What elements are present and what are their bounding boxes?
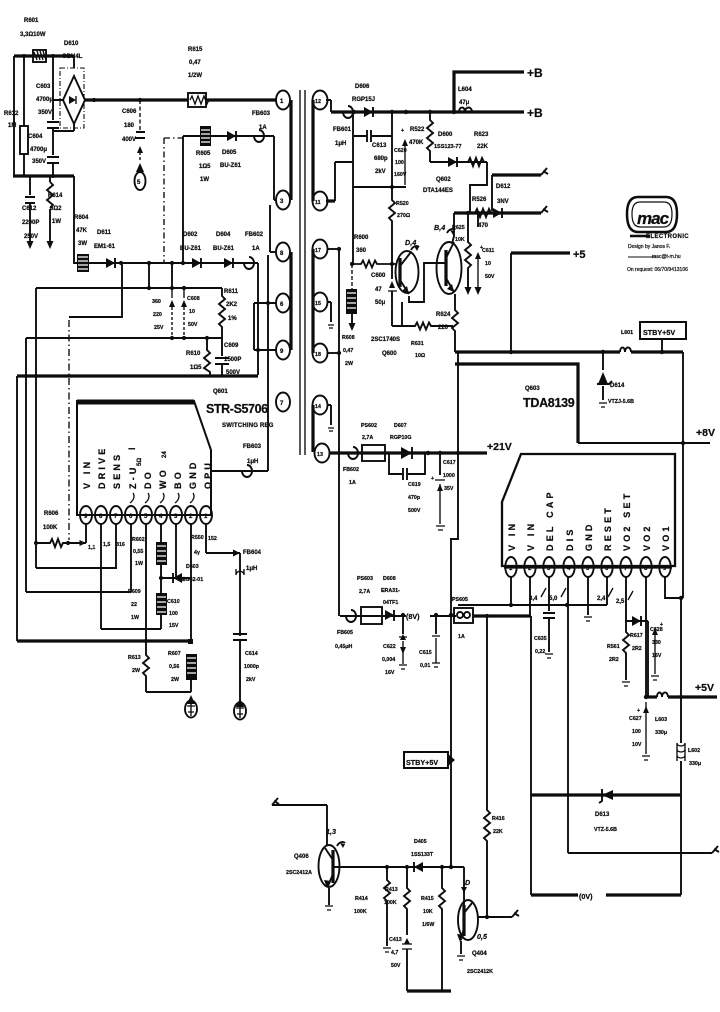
svg-text:2,5: 2,5 xyxy=(616,599,625,605)
svg-text:3W: 3W xyxy=(78,241,87,247)
transformer pin 12 xyxy=(313,91,332,113)
svg-text:4700μ: 4700μ xyxy=(36,97,53,103)
svg-text:+B: +B xyxy=(527,106,543,120)
svg-text:50V: 50V xyxy=(188,322,198,328)
wire mid rail B xyxy=(26,337,222,339)
resistor R416 xyxy=(484,616,490,917)
svg-text:10K: 10K xyxy=(455,237,465,243)
wire pin3 chain xyxy=(543,577,555,658)
resistor R612 label xyxy=(4,111,19,129)
capacitor C620 label xyxy=(394,148,407,178)
wire 0V return left xyxy=(530,795,532,895)
svg-text:13: 13 xyxy=(317,452,323,458)
svg-text:VO2: VO2 xyxy=(642,523,652,551)
svg-text:250V: 250V xyxy=(24,234,38,240)
ferrite bead FB602 label xyxy=(245,232,264,252)
wire bottom return xyxy=(407,989,451,992)
svg-text:270Ω: 270Ω xyxy=(397,213,411,219)
svg-text:2W: 2W xyxy=(345,361,353,367)
resistor R615 xyxy=(188,93,209,107)
wire Q404 emitter ground xyxy=(457,941,465,960)
svg-text:330μ: 330μ xyxy=(689,761,701,767)
svg-text:+: + xyxy=(660,622,663,628)
svg-text:+: + xyxy=(480,245,483,251)
fuse PS605 xyxy=(454,608,473,623)
wire Q404 collector xyxy=(463,867,465,905)
svg-text:1A: 1A xyxy=(349,480,356,486)
resistor R626 xyxy=(475,209,491,217)
resistor R522 label xyxy=(409,127,425,146)
resistor R610 xyxy=(204,338,210,376)
capacitor C600 xyxy=(388,264,397,296)
svg-text:On request: 06/70/9413106: On request: 06/70/9413106 xyxy=(627,267,688,273)
wire 0V return right xyxy=(680,795,682,895)
svg-text:R608: R608 xyxy=(342,335,355,341)
wire tie A xyxy=(148,263,150,288)
svg-text:R416: R416 xyxy=(492,816,505,822)
wire row592 xyxy=(26,591,131,593)
capacitor C609 xyxy=(215,338,229,376)
diode D606 xyxy=(364,107,373,117)
svg-text:C603: C603 xyxy=(36,84,51,90)
capacitor C607 label xyxy=(152,299,164,331)
svg-text:STBY+5V: STBY+5V xyxy=(406,758,438,767)
wire pin2 bus drop xyxy=(530,616,532,795)
ferrite bead FB604 xyxy=(236,553,244,636)
wire to pin1 xyxy=(206,98,276,101)
resistor R613 label xyxy=(128,655,141,674)
svg-text:FB605: FB605 xyxy=(337,630,353,636)
svg-text:50μ: 50μ xyxy=(375,300,386,306)
op-amp U1 STR-S5706 block xyxy=(77,401,211,515)
wire left rail3 xyxy=(16,376,18,641)
junction node xyxy=(485,915,489,919)
resistor R611 label xyxy=(224,289,239,322)
svg-text:2K2: 2K2 xyxy=(226,302,238,308)
capacitor C620 xyxy=(389,112,408,264)
svg-text:R550: R550 xyxy=(191,535,204,541)
wire pin1 drop xyxy=(510,577,512,605)
wire 21V rail xyxy=(329,451,487,454)
IC Q601 label xyxy=(206,389,274,429)
wire row615 xyxy=(340,615,456,617)
svg-text:R520: R520 xyxy=(396,201,409,207)
diode D608 xyxy=(385,610,394,621)
svg-text:16V: 16V xyxy=(652,653,662,659)
wire +5 rail xyxy=(511,251,570,254)
svg-text:10: 10 xyxy=(189,309,195,315)
svg-text:+: + xyxy=(431,476,434,482)
svg-text:15: 15 xyxy=(315,301,321,307)
transformer pin 17 xyxy=(313,240,340,259)
svg-text:470K: 470K xyxy=(409,140,424,146)
capacitor C608 label xyxy=(187,296,200,328)
capacitor C603 label xyxy=(36,84,53,116)
logo mac electronic xyxy=(627,197,689,273)
capacitor C617 xyxy=(431,453,445,530)
svg-text:GND: GND xyxy=(584,521,594,551)
wire +5V rail xyxy=(646,695,657,698)
svg-text:R610: R610 xyxy=(186,351,201,357)
svg-text:35V: 35V xyxy=(444,486,454,492)
capacitor C614 label xyxy=(244,651,260,683)
diode D607 label xyxy=(390,423,412,441)
resistor R604 label xyxy=(74,215,89,247)
capacitor C610 hatched xyxy=(156,593,167,615)
svg-text:2,7A: 2,7A xyxy=(362,435,373,441)
wire +5 drop xyxy=(510,253,512,352)
wire +B top branch xyxy=(454,72,524,112)
svg-text:1SS123-77: 1SS123-77 xyxy=(434,144,462,150)
transformer pin 8 xyxy=(270,243,290,262)
wire row187 xyxy=(353,186,406,188)
svg-text:TDA8139: TDA8139 xyxy=(523,396,575,410)
junction node xyxy=(188,639,193,644)
wire row605 xyxy=(458,604,607,606)
transformer winding ties xyxy=(291,100,313,452)
svg-text:2W: 2W xyxy=(132,668,140,674)
svg-text:470: 470 xyxy=(478,223,489,229)
wire pin8 drop xyxy=(645,577,647,697)
svg-text:R612: R612 xyxy=(4,111,19,117)
resistor R600 xyxy=(352,261,397,268)
svg-text:1A: 1A xyxy=(252,246,260,252)
svg-text:FB603: FB603 xyxy=(252,111,271,117)
pin 4 STR xyxy=(155,506,167,524)
wire pin1 xyxy=(205,524,207,553)
wire pin8 xyxy=(100,524,102,629)
svg-text:ELECTRONIC: ELECTRONIC xyxy=(646,234,689,240)
diode D605 label xyxy=(220,150,242,169)
resistor R617 label xyxy=(630,633,643,652)
pin 5 TDA xyxy=(582,557,593,577)
resistor R601 label xyxy=(20,18,46,38)
svg-text:22: 22 xyxy=(131,602,137,608)
net flag B4 xyxy=(434,223,455,235)
svg-text:D603: D603 xyxy=(186,564,199,570)
diode D614 zener label xyxy=(608,383,634,405)
svg-text:(8V): (8V) xyxy=(406,612,420,621)
svg-text:DTA144ES: DTA144ES xyxy=(423,188,453,194)
resistor R610 label xyxy=(186,351,202,371)
wire TDA upper frame xyxy=(455,364,578,443)
svg-text:3NV: 3NV xyxy=(497,199,509,205)
svg-text:SWITCHING REG: SWITCHING REG xyxy=(222,423,274,429)
junction node xyxy=(256,348,260,352)
svg-text:C608: C608 xyxy=(187,296,200,302)
wire left rail2 xyxy=(25,338,27,592)
svg-text:D: D xyxy=(465,878,470,887)
ferrite bead FB601 xyxy=(343,106,353,118)
svg-text:GBU4L: GBU4L xyxy=(62,54,83,60)
transformer pin 6 xyxy=(254,294,290,313)
svg-text:FB601: FB601 xyxy=(333,127,352,133)
svg-text:BO: BO xyxy=(173,469,183,489)
svg-text:316: 316 xyxy=(116,542,125,548)
pin 7 TDA xyxy=(620,557,631,577)
resistor R625 xyxy=(465,213,472,295)
svg-text:24: 24 xyxy=(162,451,168,458)
svg-text:+: + xyxy=(401,128,404,134)
wire tie B xyxy=(171,263,173,288)
pin 1 STR xyxy=(200,506,212,524)
capacitor C603 xyxy=(47,56,74,131)
diode D608 label xyxy=(381,576,400,606)
net flag D4 xyxy=(405,238,419,251)
inductor L603 label xyxy=(655,717,667,736)
wire pin5 xyxy=(145,524,147,641)
junction node xyxy=(92,98,96,102)
pin 1 TDA xyxy=(505,557,516,577)
svg-text:1SS133T: 1SS133T xyxy=(411,852,434,858)
inductor L603 xyxy=(657,693,668,698)
svg-text:50V: 50V xyxy=(485,274,495,280)
wire pin9 jog xyxy=(665,577,681,598)
junction node xyxy=(34,541,38,545)
svg-text:L602: L602 xyxy=(688,748,700,754)
transformer pin 7 xyxy=(276,393,290,412)
svg-text:16V: 16V xyxy=(385,670,395,676)
svg-text:14: 14 xyxy=(315,404,321,410)
resistor R626 label xyxy=(472,197,489,229)
resistor R414 label xyxy=(354,896,368,915)
svg-text:D605: D605 xyxy=(222,150,237,156)
svg-text:Design by Janos F.: Design by Janos F. xyxy=(628,244,670,250)
pin labels STR xyxy=(82,444,213,503)
svg-text:2SC2412K: 2SC2412K xyxy=(467,969,493,975)
svg-text:C611: C611 xyxy=(482,248,494,254)
svg-text:BU-Z61: BU-Z61 xyxy=(213,246,235,252)
svg-text:R606: R606 xyxy=(44,511,59,517)
wire deflection feed upper xyxy=(492,168,548,175)
resistor R601 xyxy=(33,50,46,62)
svg-text:1μH: 1μH xyxy=(246,566,257,572)
svg-text:Z-U: Z-U xyxy=(128,464,138,489)
svg-text:C604: C604 xyxy=(28,134,43,140)
wire right bus xyxy=(682,352,684,598)
svg-text:R601: R601 xyxy=(24,18,39,24)
svg-text:VTZ-5.6B: VTZ-5.6B xyxy=(594,827,617,833)
svg-text:0,5: 0,5 xyxy=(477,932,488,941)
svg-text:RGP10G: RGP10G xyxy=(390,435,412,441)
svg-text:PS602: PS602 xyxy=(361,423,377,429)
pin 9 TDA xyxy=(659,557,670,577)
svg-text:2R2: 2R2 xyxy=(632,646,642,652)
svg-text:D606: D606 xyxy=(355,84,370,90)
fuse PS603 xyxy=(361,607,382,624)
inductor L602 xyxy=(677,598,685,795)
svg-text:152: 152 xyxy=(208,536,217,542)
junction node xyxy=(119,261,123,265)
capacitor C635 label xyxy=(534,636,547,655)
pin 2 TDA xyxy=(524,557,535,577)
svg-text:18: 18 xyxy=(315,352,321,358)
svg-text:C413: C413 xyxy=(389,937,402,943)
junction node xyxy=(385,865,389,869)
IC Q603 label xyxy=(523,386,575,410)
junction node xyxy=(485,614,489,618)
resistor R413 label xyxy=(384,887,398,906)
svg-text:10Ω: 10Ω xyxy=(415,353,426,359)
pin voltage labels TDA xyxy=(529,588,633,605)
svg-text:0,47: 0,47 xyxy=(189,60,201,66)
wire pin1 FB604 xyxy=(206,550,240,557)
svg-text:C609: C609 xyxy=(224,343,239,349)
svg-text:FB604: FB604 xyxy=(243,550,262,556)
ferrite bead FB602b xyxy=(348,447,358,459)
wire pin2 drop xyxy=(529,577,531,616)
capacitor C614 xyxy=(233,634,247,700)
wire 0V rail xyxy=(531,893,681,896)
capacitor C604 xyxy=(47,131,59,176)
svg-text:PS605: PS605 xyxy=(452,597,468,603)
svg-text:360: 360 xyxy=(356,248,367,254)
wire row615 thick xyxy=(473,614,531,617)
wire left rail xyxy=(13,56,15,176)
wire jog Q602 xyxy=(470,162,487,213)
transistor Q404 xyxy=(457,900,478,942)
transformer pin 15 xyxy=(313,293,335,329)
svg-text:R613: R613 xyxy=(128,655,141,661)
svg-text:1M: 1M xyxy=(8,123,16,129)
svg-text:04TF1: 04TF1 xyxy=(383,600,398,606)
svg-text:R604: R604 xyxy=(74,215,89,221)
transformer pin 18 xyxy=(313,344,340,363)
resistor R415 xyxy=(439,867,445,991)
resistor R613 xyxy=(143,641,149,692)
capacitor C606 xyxy=(135,100,145,162)
wire Q600 emitter xyxy=(409,263,446,302)
junction node xyxy=(147,286,151,290)
wire row641 thick xyxy=(17,639,191,642)
pin 3 TDA xyxy=(543,557,554,577)
wire row162 xyxy=(430,161,487,163)
resistor R606 xyxy=(36,539,86,547)
svg-text:R611: R611 xyxy=(224,289,239,295)
wire shield tap xyxy=(69,263,122,317)
connector 5 xyxy=(135,163,146,190)
svg-text:D602: D602 xyxy=(183,232,198,238)
wire Q406 collector xyxy=(326,805,328,846)
svg-text:350V: 350V xyxy=(32,159,46,165)
svg-text:C613: C613 xyxy=(372,143,387,149)
wire aux vertical xyxy=(268,136,274,471)
junction node xyxy=(681,441,685,445)
diode D600 xyxy=(448,157,457,167)
wire pin4 drop xyxy=(567,577,569,853)
svg-text:C619: C619 xyxy=(408,482,421,488)
capacitor C615 label xyxy=(419,650,432,669)
wire R617 drop xyxy=(647,621,649,697)
svg-text:15V: 15V xyxy=(169,623,179,629)
svg-text:(0V): (0V) xyxy=(579,892,593,901)
svg-text:1000p: 1000p xyxy=(244,664,260,670)
svg-text:D613: D613 xyxy=(595,812,610,818)
junction node xyxy=(390,185,394,189)
fuse PS603 label xyxy=(357,576,373,595)
transformer pin 13 xyxy=(315,444,330,463)
svg-text:100: 100 xyxy=(169,611,178,617)
resistor R413 xyxy=(404,867,410,935)
capacitor C627 xyxy=(637,702,650,760)
node STBY+5V box xyxy=(640,322,686,352)
resistor R608 hatched xyxy=(346,264,357,331)
svg-text:+B: +B xyxy=(527,66,543,80)
junction node xyxy=(22,54,26,58)
wire D612 vert xyxy=(491,175,493,211)
svg-text:D405: D405 xyxy=(414,839,427,845)
svg-text:C617: C617 xyxy=(443,460,456,466)
transformer T601 core xyxy=(300,90,305,455)
svg-text:1,3: 1,3 xyxy=(326,827,336,836)
resistor R522 xyxy=(427,112,433,162)
svg-text:FB602: FB602 xyxy=(343,467,359,473)
svg-text:DIS: DIS xyxy=(565,526,575,551)
svg-text:VTZJ-5.6B: VTZJ-5.6B xyxy=(608,399,634,405)
svg-text:470p: 470p xyxy=(408,495,421,501)
svg-text:22K: 22K xyxy=(477,144,489,150)
resistor R623 label xyxy=(474,132,489,150)
transformer pin 9 xyxy=(254,341,290,360)
svg-text:C600: C600 xyxy=(371,273,386,279)
wire R604 feed xyxy=(74,176,77,263)
wire pin7 chain xyxy=(626,577,648,621)
capacitor C604 label xyxy=(28,134,47,165)
junction node xyxy=(449,758,453,762)
resistor R561 xyxy=(622,621,630,686)
svg-text:2kV: 2kV xyxy=(246,677,256,683)
svg-text:4700μ: 4700μ xyxy=(30,147,47,153)
svg-text:D607: D607 xyxy=(394,423,407,429)
svg-text:C606: C606 xyxy=(122,109,137,115)
wire AC top xyxy=(14,54,74,57)
svg-text:11: 11 xyxy=(315,200,321,206)
resistor R604 xyxy=(77,254,89,272)
diode D611 xyxy=(106,258,115,268)
svg-text:WO: WO xyxy=(158,467,168,489)
wire bottom rail xyxy=(13,174,74,177)
resistor R605 xyxy=(200,126,211,146)
svg-text:100: 100 xyxy=(395,160,404,166)
diode D605 xyxy=(227,131,236,141)
svg-text:FB602: FB602 xyxy=(245,232,264,238)
svg-text:1W: 1W xyxy=(135,561,143,567)
svg-text:1/6W: 1/6W xyxy=(422,922,434,928)
svg-text:1Ω5: 1Ω5 xyxy=(199,164,211,170)
junction node xyxy=(644,695,648,699)
svg-text:R414: R414 xyxy=(355,896,368,902)
capacitor C413 xyxy=(402,938,412,991)
resistor R623 xyxy=(468,158,484,166)
svg-text:2,4: 2,4 xyxy=(597,596,606,602)
resistor R602 label xyxy=(132,537,145,567)
resistor R416 label xyxy=(492,816,505,835)
svg-text:25V: 25V xyxy=(154,325,164,331)
svg-text:V IN: V IN xyxy=(507,521,517,551)
resistor R605 label xyxy=(196,151,211,183)
node 8V label xyxy=(406,608,430,621)
resistor R611 xyxy=(219,288,225,338)
resistor R608b hatched xyxy=(186,654,197,680)
wire drain rail xyxy=(17,374,258,377)
svg-text:50V: 50V xyxy=(391,963,401,969)
wire 8V secondary drop xyxy=(338,249,340,616)
capacitor C606 label xyxy=(122,109,137,143)
svg-text:R624: R624 xyxy=(436,312,451,318)
wire drain link xyxy=(257,263,259,375)
resistor R631 label xyxy=(411,341,426,359)
resistor R624 xyxy=(452,294,458,352)
